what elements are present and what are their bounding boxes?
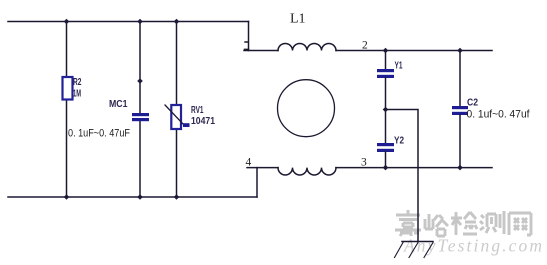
value 1M [73, 89, 81, 100]
svg-text:10471: 10471 [191, 116, 215, 127]
wire step down to L1 pin 1 [248, 22, 250, 51]
svg-text:0. 1uF~0. 47uF: 0. 1uF~0. 47uF [68, 128, 130, 140]
label L1 [290, 12, 306, 27]
svg-text:RV1: RV1 [191, 105, 204, 116]
svg-text:C2: C2 [467, 97, 478, 109]
inductor L1 bottom winding [278, 168, 336, 175]
pin 2 label [362, 40, 368, 52]
检 [451, 212, 477, 235]
网 [509, 213, 531, 235]
wire Y branch middle [385, 78, 387, 143]
label Y2 [394, 135, 404, 147]
value 0.1uf~0.47uf [467, 109, 531, 121]
wire RV1 branch vertical lower [176, 129, 178, 197]
wire bottom left rail (N line) [8, 196, 257, 198]
label Y1 [395, 61, 403, 72]
node dot at C2 top [457, 48, 463, 54]
峪 [425, 214, 448, 236]
pin 1 label [245, 42, 249, 49]
varistor RV1 diagonal [165, 105, 183, 124]
svg-text:4: 4 [246, 157, 252, 169]
varistor RV1 diagonal foot [183, 123, 190, 127]
label RV1 [191, 105, 204, 116]
node dot bottom of RV1 branch [174, 194, 180, 200]
node dot top of R2 branch [64, 19, 70, 25]
wire L1 pin4 lead [247, 167, 278, 169]
label C2 [467, 97, 478, 109]
wire MC1 branch vertical [139, 22, 141, 114]
wire top rail (L line) [8, 21, 249, 23]
svg-text:R2: R2 [73, 77, 82, 88]
wire C2 branch lower [459, 115, 461, 168]
svg-text:L1: L1 [290, 12, 306, 27]
node dot at C2 bottom [457, 165, 463, 171]
varistor RV1 [171, 105, 181, 129]
svg-text:Y1: Y1 [395, 61, 403, 72]
wire Y branch lower [385, 152, 387, 168]
wire pin 2 to right end [336, 50, 492, 52]
ground symbol [395, 242, 434, 258]
嘉 [395, 210, 421, 236]
node dot Y midpoint [383, 107, 389, 113]
label MC1 [109, 99, 128, 110]
wire C2 branch upper [459, 51, 461, 107]
node dot on MC1 branch [137, 78, 143, 84]
svg-text:0. 1uf~0. 47uf: 0. 1uf~0. 47uf [467, 109, 531, 121]
wire step up to L1 pin 4 [256, 168, 258, 197]
wire pin 3 to right end [336, 167, 492, 169]
value 10471 [191, 116, 215, 127]
svg-text:MC1: MC1 [109, 99, 128, 110]
capacitor Y2 [377, 143, 394, 152]
node dot at Y1 top [383, 48, 389, 54]
capacitor C2 [452, 106, 468, 115]
node dot at Y2 bottom [383, 165, 389, 171]
wire RV1 branch vertical [176, 22, 178, 106]
wire Y branch upper [385, 51, 387, 70]
wire earth connection [386, 110, 419, 242]
inductor L1 top winding [278, 44, 336, 51]
node dot top of MC1 branch [137, 19, 143, 25]
capacitor MC1 [132, 113, 149, 121]
node dot bottom of R2 branch [64, 194, 70, 200]
inductor L1 core circle [278, 80, 335, 137]
node dot bottom of MC1 branch [137, 194, 143, 200]
wire MC1 branch vertical lower [139, 121, 141, 197]
svg-text:1M: 1M [73, 89, 81, 100]
svg-text:Y2: Y2 [394, 135, 404, 147]
wire L1 pin1 lead [244, 50, 278, 52]
pin 3 label [361, 157, 367, 169]
wire left rail vertical R2 [66, 22, 68, 198]
测 [480, 211, 504, 234]
resistor R2 [63, 77, 73, 100]
capacitor Y1 [377, 69, 394, 78]
value 0.1uF~0.47uF [68, 128, 130, 140]
svg-text:2: 2 [362, 40, 368, 52]
pin 4 label [246, 157, 252, 169]
node dot top of RV1 branch [174, 19, 180, 25]
svg-text:3: 3 [361, 157, 367, 169]
label R2 [73, 77, 82, 88]
